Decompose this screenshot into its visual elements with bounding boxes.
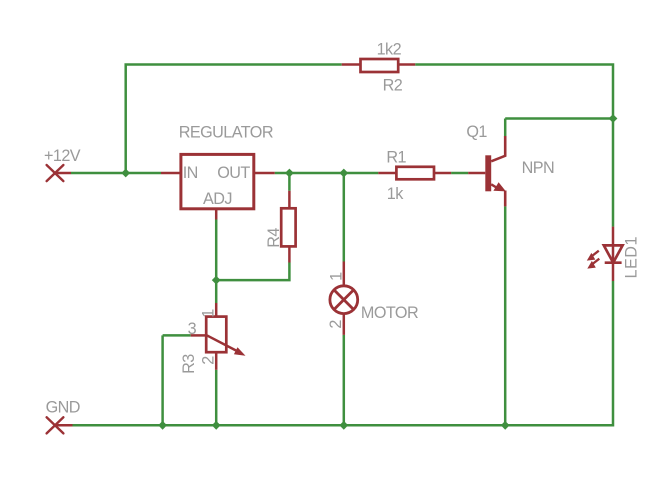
svg-text:LED1: LED1 — [623, 236, 641, 279]
svg-text:REGULATOR: REGULATOR — [179, 123, 273, 141]
svg-text:Q1: Q1 — [466, 123, 487, 141]
svg-text:R2: R2 — [383, 77, 403, 95]
svg-text:1k2: 1k2 — [377, 41, 402, 59]
svg-text:3: 3 — [188, 320, 197, 338]
svg-text:OUT: OUT — [217, 164, 250, 182]
svg-text:1: 1 — [200, 309, 218, 318]
svg-text:MOTOR: MOTOR — [361, 304, 418, 322]
svg-text:R4: R4 — [265, 228, 283, 248]
svg-text:GND: GND — [46, 398, 80, 416]
svg-text:IN: IN — [183, 164, 198, 182]
svg-text:2: 2 — [327, 320, 345, 329]
svg-text:+12V: +12V — [44, 147, 81, 165]
svg-text:NPN: NPN — [522, 159, 555, 177]
svg-text:1: 1 — [327, 272, 345, 281]
svg-text:R1: R1 — [386, 149, 406, 167]
svg-text:2: 2 — [199, 356, 217, 365]
svg-text:ADJ: ADJ — [203, 190, 232, 208]
svg-text:1k: 1k — [387, 185, 404, 203]
svg-text:R3: R3 — [180, 354, 198, 374]
